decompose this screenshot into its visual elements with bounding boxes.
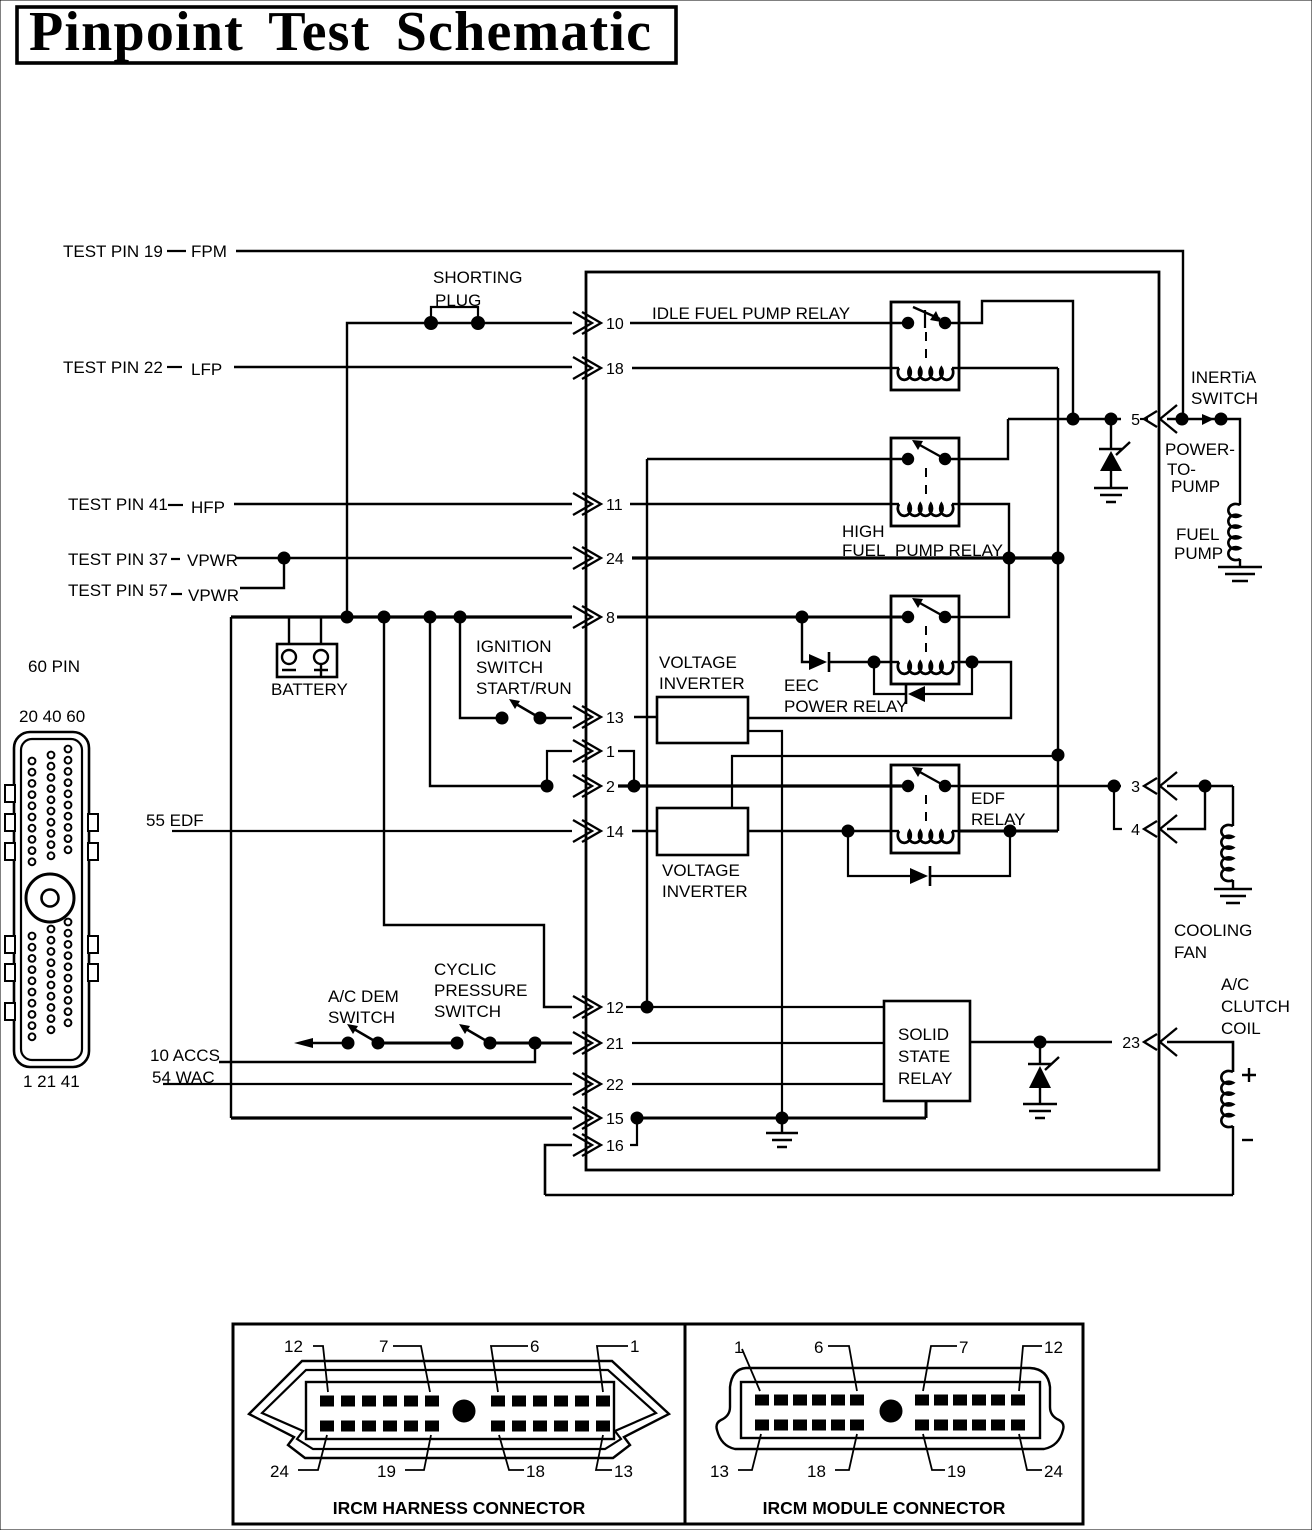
wire high relay contact feed from pin 12 rail (647, 458, 908, 460)
wire pin 22 to solid state relay (632, 1083, 884, 1085)
svg-text:2: 2 (606, 779, 615, 796)
wire 10 ACCS joining A/C switch row (219, 1043, 535, 1062)
wire pin 3 to cooling fan (1167, 785, 1233, 787)
svg-text:4: 4 (1131, 822, 1140, 839)
svg-text:SWITCH: SWITCH (476, 658, 543, 677)
svg-text:FPM: FPM (191, 242, 227, 261)
pin 2 connector chevron (573, 775, 601, 797)
svg-text:POWER RELAY: POWER RELAY (784, 697, 907, 716)
svg-text:SWITCH: SWITCH (434, 1002, 501, 1021)
relay box: EEC power relay (891, 596, 959, 684)
junction: pins 1-2 tie (628, 780, 640, 792)
60-pin connector pin holes (29, 746, 72, 1041)
EEC power relay contact dots (902, 611, 913, 622)
wire LFP to pin 18 (234, 366, 572, 368)
relay box: idle fuel pump relay (891, 302, 959, 390)
wire FPM from test pin 19 to inertia-switch node (top run) (236, 251, 1183, 419)
A/C clutch coil (1221, 1071, 1233, 1127)
svg-text:10 ACCS: 10 ACCS (150, 1046, 220, 1065)
svg-text:23: 23 (1122, 1035, 1140, 1052)
pin 22 connector chevron (573, 1073, 601, 1095)
A/C DEM switch lever (354, 1029, 378, 1043)
pin 23 connector chevron (1144, 1028, 1177, 1056)
wire inverter VPWR feed (732, 756, 1058, 808)
wire pin 11 to high fuel pump relay coil (630, 503, 891, 505)
junction: EDF coil right / flyback (1004, 825, 1016, 837)
svg-text:5: 5 (1131, 412, 1140, 429)
svg-text:HFP: HFP (191, 498, 225, 517)
junction: 10 ACCS tap (529, 1037, 541, 1049)
cyclic pressure switch lever (466, 1029, 490, 1043)
idle fuel pump relay contact dots (902, 317, 913, 328)
EDF relay flyback diode CR3 (848, 831, 910, 876)
IRCM harness connector pin field (306, 1382, 614, 1439)
junction dots on supply rail (341, 611, 353, 623)
IRCM harness connector shell outer (249, 1361, 669, 1458)
relay box: high fuel pump relay (891, 438, 959, 526)
svg-text:A/C DEM: A/C DEM (328, 987, 399, 1006)
wire VPWR to pin 24 (236, 557, 572, 560)
pin 16 connector chevron (573, 1134, 601, 1156)
svg-text:24: 24 (1044, 1462, 1063, 1481)
EEC power relay feed diode CR1 (802, 617, 809, 662)
60-pin connector body inner (21, 739, 82, 1060)
svg-text:PRESSURE: PRESSURE (434, 981, 528, 1000)
IRCM module outline box (586, 272, 1159, 1170)
wire pin 21 to solid state relay (632, 1042, 884, 1044)
EDF relay contact dots (902, 780, 913, 791)
signal ground symbol (781, 1118, 783, 1132)
wire branch to ignition switch (460, 617, 502, 718)
IRCM module connector pins (756, 1395, 1025, 1430)
svg-text:24: 24 (606, 551, 624, 568)
wire pin 8 to EEC power relay contact (617, 616, 908, 619)
svg-text:19: 19 (947, 1462, 966, 1481)
A/C clutch coil minus terminal (1242, 1139, 1253, 1141)
pin 15 connector chevron (573, 1107, 601, 1129)
shorting plug contact dots (425, 317, 438, 330)
svg-text:12: 12 (1044, 1338, 1063, 1357)
wire pin 23 to A/C clutch coil (1167, 1042, 1233, 1072)
svg-text:13: 13 (614, 1462, 633, 1481)
svg-text:1: 1 (606, 744, 615, 761)
junction: pin24/VPWR rail (1052, 552, 1064, 564)
svg-text:6: 6 (814, 1338, 823, 1357)
bottom return rail to A/C clutch coil (545, 1194, 1233, 1197)
junction: pin 12 / contact rail (641, 1001, 653, 1013)
svg-text:START/RUN: START/RUN (476, 679, 572, 698)
junction: pin 8 diode branch (796, 611, 808, 623)
high fuel pump relay armature dashed link (925, 468, 927, 496)
junction: idle relay contact at node 5 (1067, 413, 1079, 425)
wire switch row to pin 21 (490, 1042, 572, 1045)
A/C DEM switch contact dots (342, 1037, 354, 1049)
svg-text:18: 18 (526, 1462, 545, 1481)
svg-text:21: 21 (606, 1036, 624, 1053)
junction: VPWR test pins (278, 552, 290, 564)
wire EEC coil to voltage inverter output (748, 662, 1011, 718)
wire node 5 row (1008, 418, 1121, 420)
svg-text:19: 19 (377, 1462, 396, 1481)
wire inverter output to EDF relay coil (748, 830, 891, 832)
svg-text:HIGH: HIGH (842, 522, 885, 541)
svg-text:IRCM MODULE CONNECTOR: IRCM MODULE CONNECTOR (763, 1498, 1006, 1518)
svg-text:11: 11 (606, 497, 623, 514)
IRCM harness connector pins (321, 1396, 610, 1431)
idle fuel pump relay armature dashed link (925, 332, 927, 360)
junction: EEC coil left (868, 656, 880, 668)
wire 55 EDF to pin 14 (172, 830, 572, 832)
pin 3 connector chevron (1144, 772, 1177, 800)
svg-text:18: 18 (807, 1462, 826, 1481)
wire 54 WAC to pin 22 (163, 1083, 572, 1085)
idle fuel pump relay switch lever (913, 307, 940, 319)
junction: pin 15/16 tie (631, 1112, 643, 1124)
IRCM module connector shell (717, 1368, 1064, 1449)
wire high relay coil to VPWR junction (959, 504, 1009, 558)
wire pin 18 to idle relay coil (632, 367, 891, 369)
pin 1 connector chevron (573, 740, 601, 762)
wire pin 4 to junction (1167, 786, 1205, 829)
svg-text:PUMP: PUMP (1174, 544, 1223, 563)
ground symbol at node 5 diode (1094, 488, 1128, 502)
wire pin 24 VPWR feed (632, 556, 1058, 559)
svg-text:Pinpoint Test Schematic: Pinpoint Test Schematic (29, 1, 652, 63)
shorting plug branch wire to pin 10 (347, 323, 572, 617)
svg-text:13: 13 (710, 1462, 729, 1481)
wire EEC relay contact up to pin 24 line (945, 558, 1009, 617)
svg-text:POWER-: POWER- (1165, 440, 1235, 459)
svg-text:A/C: A/C (1221, 975, 1249, 994)
svg-text:7: 7 (379, 1337, 388, 1356)
junction: pin24/high coil/EEC contact (1003, 552, 1015, 564)
svg-text:SOLID: SOLID (898, 1025, 949, 1044)
svg-text:INVERTER: INVERTER (659, 674, 745, 693)
svg-text:1: 1 (734, 1338, 743, 1357)
ignition switch lever (516, 704, 540, 718)
svg-text:15: 15 (606, 1111, 624, 1128)
EDF relay armature dashed link (925, 795, 927, 823)
junction: EDF coil left / flyback (842, 825, 854, 837)
wire pin 1 jumper to pin 2 (618, 751, 634, 786)
harness connector panel box (233, 1324, 685, 1524)
wire battery supply rail to pin 8 (231, 615, 572, 618)
svg-text:EDF: EDF (971, 789, 1005, 808)
wire pin 14 to voltage inverter (lower) (632, 830, 657, 832)
EEC power relay armature dashed link (925, 626, 927, 654)
svg-text:INVERTER: INVERTER (662, 882, 748, 901)
pin 14 connector chevron (573, 820, 601, 842)
EEC power relay flyback diode CR2 (874, 662, 905, 694)
wire pin 16 jumper to pin 15 (630, 1118, 637, 1145)
svg-text:TEST PIN 57: TEST PIN 57 (68, 581, 168, 600)
wire solid state relay output to pin 23 (970, 1041, 1112, 1044)
voltage inverter box (upper) (657, 697, 748, 743)
IRCM module connector pin field (741, 1382, 1040, 1438)
pin 13 connector chevron (573, 706, 601, 728)
wire node 5 to chevron (1140, 418, 1148, 420)
wire to pin 15 (231, 1116, 572, 1119)
pin 21 connector chevron (573, 1032, 601, 1054)
IRCM harness connector polarizing hole (453, 1400, 475, 1422)
60-pin connector side tabs (5, 785, 98, 1020)
svg-text:TEST PIN 19: TEST PIN 19 (63, 242, 163, 261)
pin 5 connector chevron (1144, 405, 1177, 433)
battery B1 (277, 644, 337, 677)
wire idle relay contact to node 5 (945, 301, 1073, 419)
svg-text:7: 7 (959, 1338, 968, 1357)
wire branch to pin 12 (384, 617, 572, 1007)
svg-text:INERTiA: INERTiA (1191, 368, 1257, 387)
pin 4 connector chevron (1144, 815, 1177, 843)
wire pin 2 to EDF relay contact (618, 784, 908, 787)
EEC power relay switch lever (918, 602, 945, 617)
svg-text:TEST PIN 37: TEST PIN 37 (68, 550, 168, 569)
svg-text:TEST PIN 41: TEST PIN 41 (68, 495, 168, 514)
svg-text:8: 8 (606, 610, 615, 627)
junction: VPWR rail / inverter feed (1052, 749, 1064, 761)
svg-text:10: 10 (606, 316, 624, 333)
svg-text:12: 12 (606, 1000, 624, 1017)
shorting plug removable link (431, 307, 478, 321)
wire left drop from supply rail (230, 617, 232, 1118)
wire pin 12 to solid state relay (626, 1006, 884, 1008)
wire test pin 57 up to VPWR junction (240, 558, 284, 588)
wire branch to pins 1 and 2 (430, 617, 547, 786)
svg-text:60 PIN: 60 PIN (28, 657, 80, 676)
svg-text:IGNITION: IGNITION (476, 637, 552, 656)
svg-text:SHORTING: SHORTING (433, 268, 522, 287)
svg-text:STATE: STATE (898, 1047, 950, 1066)
wire EDF relay contact to pin 3 (945, 785, 1121, 787)
svg-text:EEC: EEC (784, 676, 819, 695)
high fuel pump relay coil (891, 503, 899, 505)
pin 12 connector chevron (573, 996, 601, 1018)
svg-text:IDLE FUEL PUMP RELAY: IDLE FUEL PUMP RELAY (652, 304, 850, 323)
junction: cooling fan / pin 4 tie (1199, 780, 1211, 792)
svg-text:BATTERY: BATTERY (271, 680, 348, 699)
clamp diode CR4 at pin 23 (1039, 1042, 1041, 1064)
fuel pump motor coil (1228, 504, 1240, 560)
solid state relay box (884, 1001, 970, 1101)
cooling fan motor coil (1221, 825, 1233, 881)
wire A/C clutch coil to bottom rail (1232, 1126, 1234, 1195)
wire pin 3 to pin 4 jumper (1114, 786, 1122, 829)
cyclic pressure switch contact dots (451, 1037, 463, 1049)
svg-text:LFP: LFP (191, 360, 222, 379)
junction: ground tap (776, 1112, 788, 1124)
module connector panel box (685, 1324, 1083, 1524)
pin 24 connector chevron (573, 547, 601, 569)
svg-text:1: 1 (630, 1337, 639, 1356)
wire inertia switch to fuel pump (1221, 419, 1240, 505)
ground symbol at fuel pump (1218, 567, 1262, 581)
wire pin 16 to bottom return rail (545, 1145, 572, 1195)
clamp diode CR5 at node 5 (1110, 419, 1112, 449)
svg-text:CLUTCH: CLUTCH (1221, 997, 1290, 1016)
svg-text:12: 12 (284, 1337, 303, 1356)
VPWR rail (vertical) (1057, 368, 1059, 831)
pin 11 connector chevron (573, 493, 601, 515)
wire ignition switch to pin 13 (540, 717, 572, 719)
svg-text:RELAY: RELAY (971, 810, 1026, 829)
wire idle relay coil to VPWR rail (959, 367, 1058, 369)
junction: clamp diode tap (1034, 1036, 1046, 1048)
IRCM module connector polarizing hole (880, 1400, 902, 1422)
wire voltage inverter ground lead (748, 731, 782, 1118)
svg-text:55 EDF: 55 EDF (146, 811, 204, 830)
svg-text:FAN: FAN (1174, 943, 1207, 962)
junction: pin 3 node (1108, 780, 1120, 792)
svg-text:PLUG: PLUG (435, 291, 481, 310)
voltage inverter box (lower) (657, 808, 748, 855)
inertia switch (1167, 418, 1221, 420)
60-pin connector body outer (14, 732, 89, 1067)
A/C clutch coil plus terminal (1242, 1068, 1256, 1082)
wire pin 15 ground run (632, 1117, 926, 1120)
svg-text:VPWR: VPWR (188, 586, 239, 605)
wire between switches (378, 1042, 457, 1045)
wire to solid state relay return (925, 1101, 928, 1118)
pin 18 connector chevron (573, 357, 601, 379)
svg-text:18: 18 (606, 361, 624, 378)
svg-text:FUEL: FUEL (1176, 525, 1219, 544)
svg-text:13: 13 (606, 710, 624, 727)
svg-text:COOLING: COOLING (1174, 921, 1252, 940)
svg-text:1 21 41: 1 21 41 (23, 1072, 80, 1091)
pin 10 connector chevron (573, 312, 601, 334)
title box (17, 7, 676, 63)
svg-text:16: 16 (606, 1138, 624, 1155)
svg-text:PUMP: PUMP (1171, 477, 1220, 496)
high fuel pump relay switch lever (918, 444, 945, 459)
svg-text:CYCLIC: CYCLIC (434, 960, 496, 979)
IRCM harness connector shell inner (262, 1370, 656, 1449)
EEC power relay coil (891, 661, 899, 663)
junction: pin1/pin2 branch (541, 780, 553, 792)
junction: clamp diode at node 5 (1105, 413, 1117, 425)
svg-text:SWITCH: SWITCH (328, 1008, 395, 1027)
svg-text:14: 14 (606, 824, 624, 841)
svg-text:6: 6 (530, 1337, 539, 1356)
svg-text:TEST PIN 22: TEST PIN 22 (63, 358, 163, 377)
wire HFP to pin 11 (234, 503, 572, 505)
svg-text:SWITCH: SWITCH (1191, 389, 1258, 408)
high fuel pump relay contact dots (902, 453, 913, 464)
pin 12 to relay-contact rail (vertical) (646, 459, 648, 1007)
svg-text:22: 22 (606, 1077, 624, 1094)
ground symbol at cooling fan (1214, 889, 1252, 903)
svg-text:IRCM HARNESS CONNECTOR: IRCM HARNESS CONNECTOR (333, 1498, 586, 1518)
svg-text:20 40 60: 20 40 60 (19, 707, 85, 726)
svg-text:VOLTAGE: VOLTAGE (662, 861, 740, 880)
svg-text:VOLTAGE: VOLTAGE (659, 653, 737, 672)
EDF relay switch lever (918, 771, 945, 786)
pin 8 connector chevron (573, 606, 601, 628)
wire down to cooling fan coil (1232, 786, 1234, 826)
svg-text:COIL: COIL (1221, 1019, 1261, 1038)
A/C control row: dangling arrow (312, 1042, 348, 1045)
EDF relay coil (891, 830, 899, 832)
60-pin connector mounting hole (26, 874, 74, 922)
svg-text:RELAY: RELAY (898, 1069, 953, 1088)
wire EDF coil to VPWR rail (959, 830, 1058, 833)
svg-text:24: 24 (270, 1462, 289, 1481)
battery terminal leads (288, 617, 290, 644)
svg-text:VPWR: VPWR (187, 551, 238, 570)
relay box: EDF relay (891, 765, 959, 853)
wire pin 13 to voltage inverter (634, 716, 657, 718)
svg-text:3: 3 (1131, 779, 1140, 796)
wire pin 10 to idle relay contact (630, 322, 908, 324)
junction: EEC coil right (966, 656, 978, 668)
ground symbol at clamp diode (1023, 1104, 1057, 1118)
wire up to pin 1 (547, 751, 572, 786)
wire high relay contact to node 5 (945, 419, 1008, 459)
idle fuel pump relay coil (891, 367, 899, 369)
ignition switch contact dots (496, 712, 508, 724)
